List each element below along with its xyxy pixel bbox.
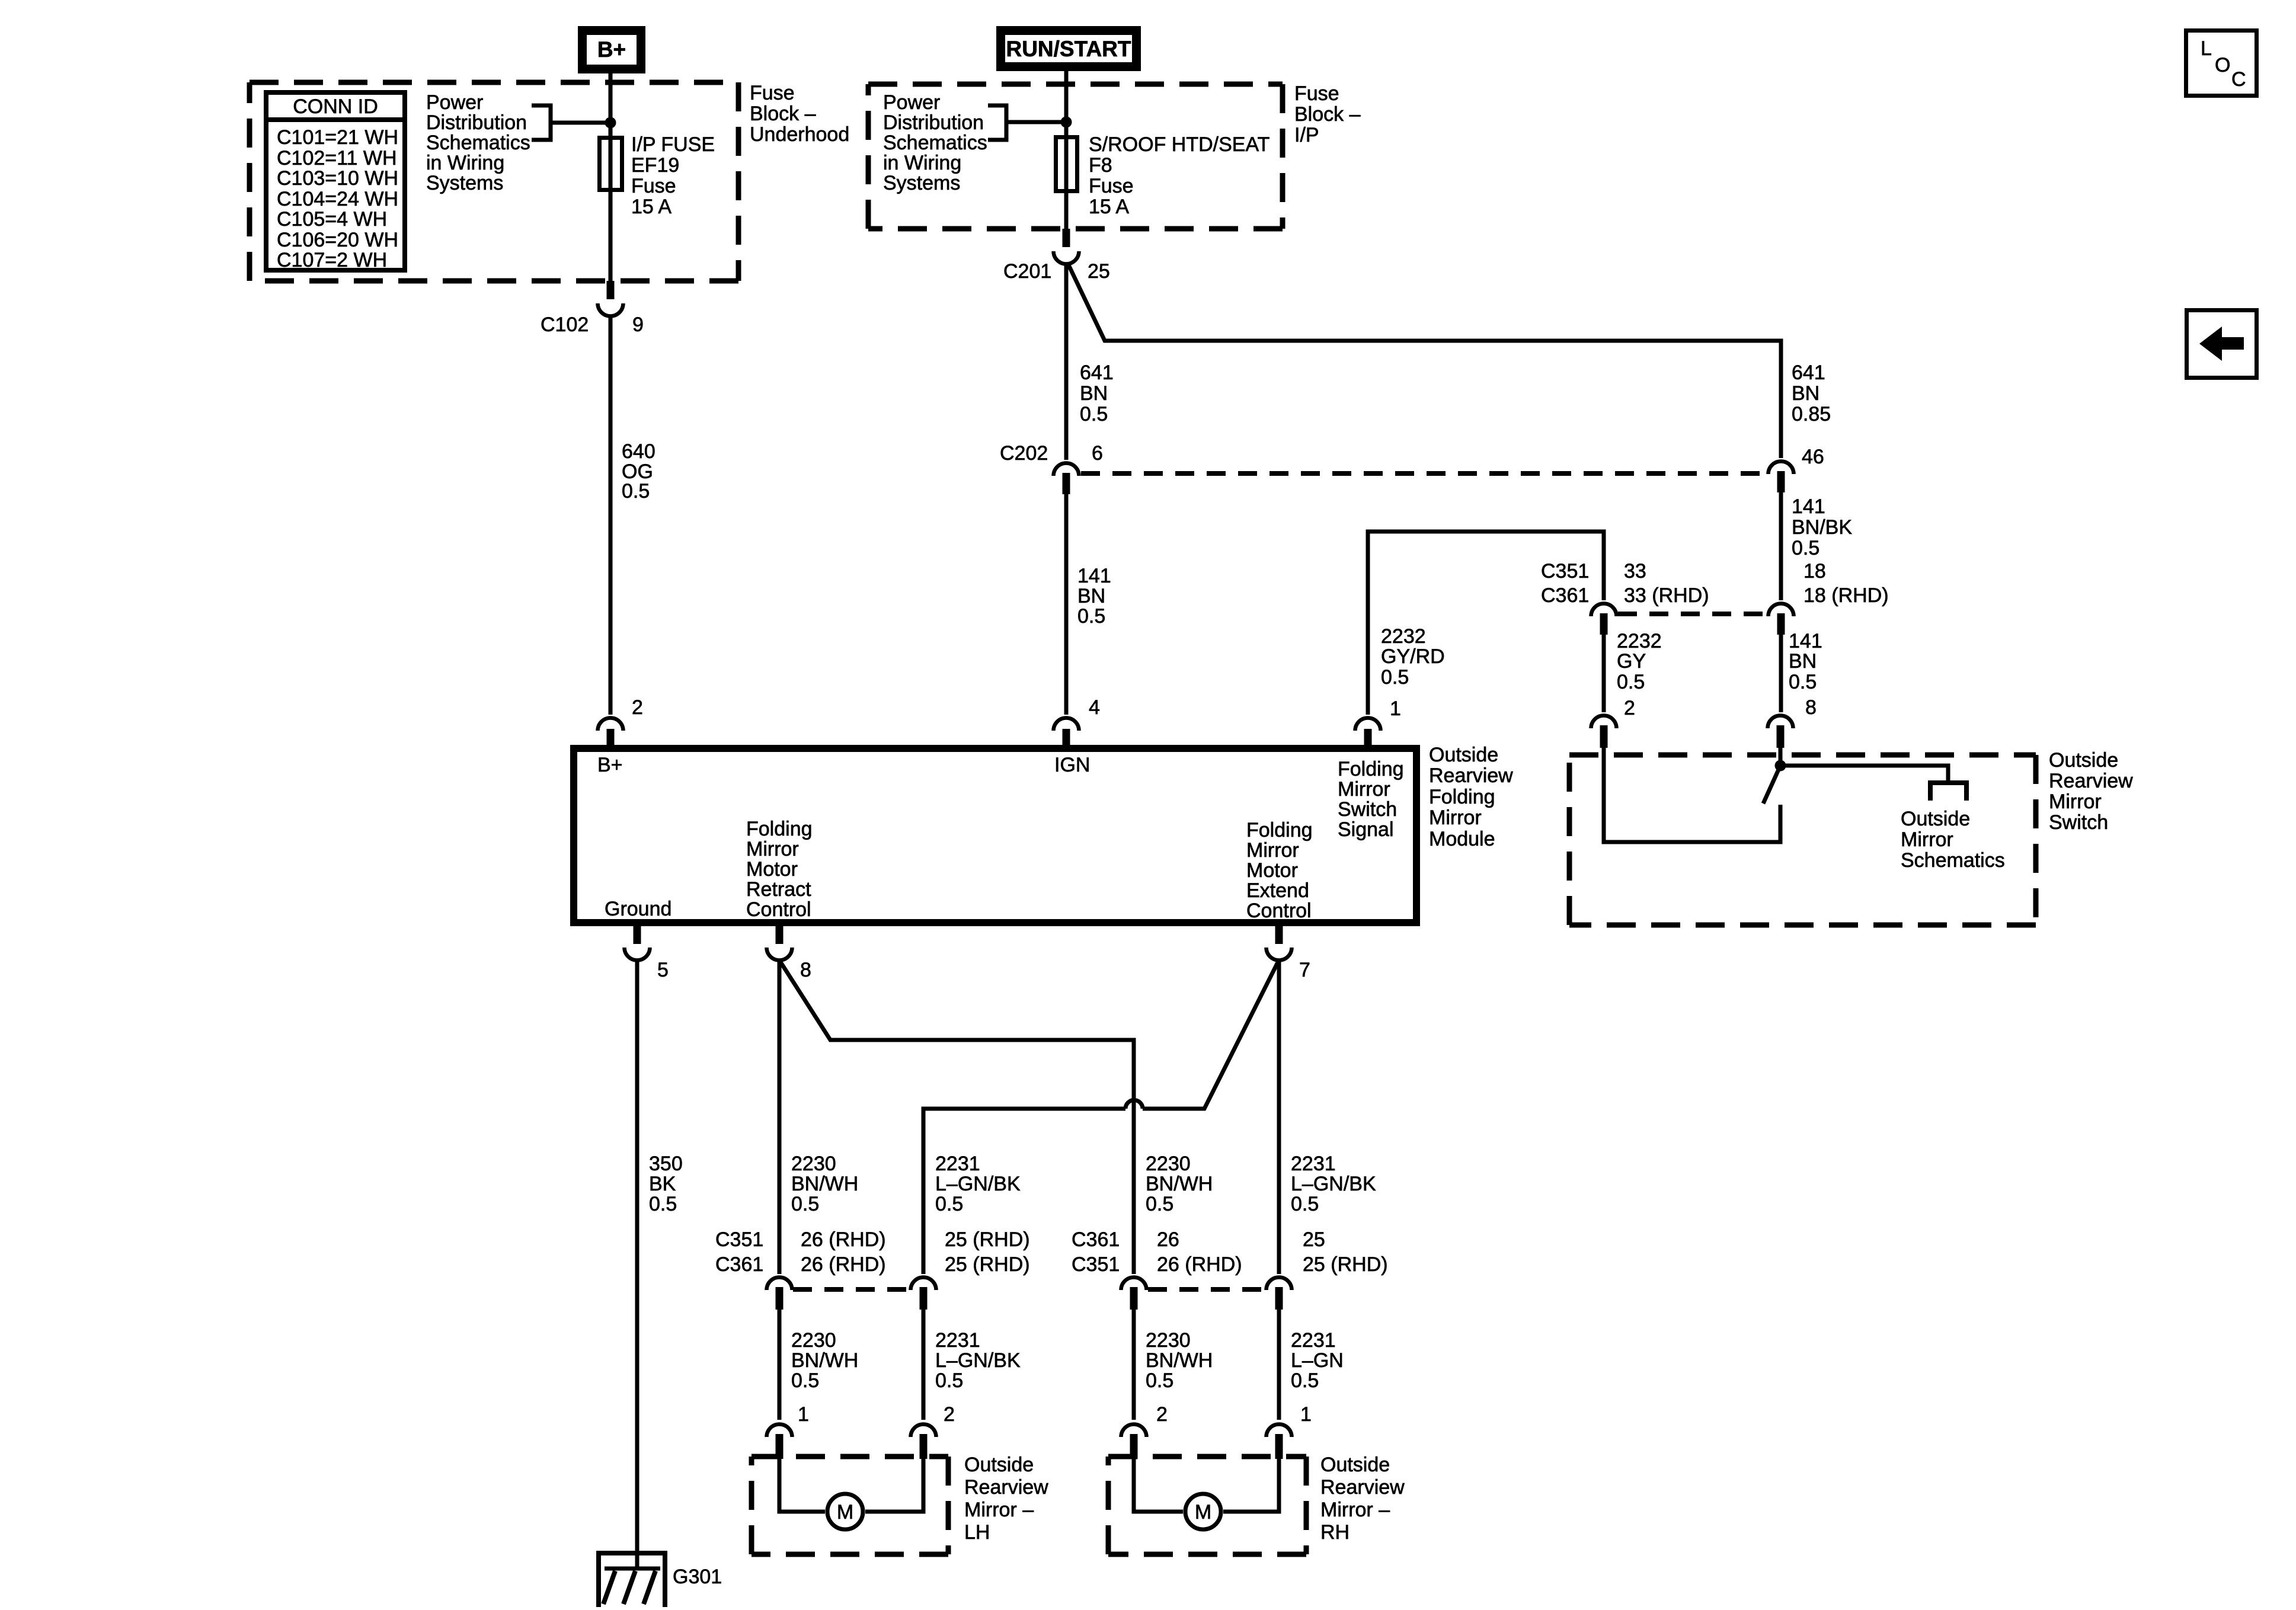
label: power distribution schematics (right) [883, 91, 987, 194]
label: Folding Mirror Motor Extend Control [1246, 819, 1313, 922]
wire 641 BN 0.85 C201 branch to 46 [1067, 263, 1831, 458]
svg-text:F8: F8 [1089, 154, 1112, 177]
svg-text:8: 8 [800, 959, 811, 981]
svg-text:Mirror: Mirror [2049, 790, 2102, 813]
svg-text:L: L [2201, 37, 2212, 60]
svg-text:2: 2 [1624, 697, 1635, 719]
connector C351/C361 pin 26 LH [715, 1228, 886, 1310]
svg-text:Systems: Systems [426, 172, 503, 194]
svg-text:L–GN/BK: L–GN/BK [935, 1173, 1021, 1195]
ground G301 [599, 1553, 722, 1607]
svg-text:C101=21 WH: C101=21 WH [277, 126, 398, 149]
label: power distribution schematics (left) [426, 91, 530, 194]
fuse block underhood dashed box [250, 82, 738, 281]
motor M LH [827, 1494, 863, 1529]
wire 141 BN/BK 0.5 [1781, 492, 1852, 600]
svg-text:IGN: IGN [1054, 754, 1090, 776]
svg-text:Distribution: Distribution [883, 111, 984, 134]
svg-text:2231: 2231 [1291, 1329, 1336, 1352]
svg-text:Rearview: Rearview [1429, 764, 1513, 787]
svg-text:Distribution: Distribution [426, 111, 527, 134]
module pin labels [597, 754, 1090, 920]
svg-text:Power: Power [426, 91, 483, 114]
wire 141 BN 0.5 C202 to IGN [1066, 494, 1111, 715]
svg-text:350: 350 [649, 1153, 683, 1175]
wire 350 BK 0.5 ground [637, 960, 683, 1569]
svg-text:Systems: Systems [883, 172, 960, 194]
dashed splice C202 to 46 [1081, 471, 1766, 476]
svg-text:0.5: 0.5 [791, 1193, 819, 1215]
svg-text:2: 2 [632, 696, 643, 719]
svg-text:Rearview: Rearview [2049, 770, 2133, 792]
motor M RH [1185, 1494, 1221, 1529]
svg-text:I/P FUSE: I/P FUSE [631, 133, 715, 156]
connector C201 pin 25 [1003, 229, 1110, 283]
svg-text:Fuse: Fuse [1089, 175, 1134, 197]
label: Outside Rearview Mirror Switch [2049, 749, 2133, 834]
svg-text:Power: Power [883, 91, 940, 114]
label: Fuse Block Underhood [750, 82, 849, 146]
svg-text:0.5: 0.5 [1291, 1369, 1319, 1392]
svg-text:C104=24 WH: C104=24 WH [277, 188, 398, 210]
svg-text:Outside: Outside [964, 1454, 1034, 1476]
svg-text:Fuse: Fuse [631, 175, 676, 197]
off-page reference symbol [1930, 783, 1966, 801]
RH mirror pin 2 connector [1121, 1403, 1168, 1459]
svg-text:2230: 2230 [791, 1153, 836, 1175]
svg-text:2232: 2232 [1381, 625, 1426, 648]
svg-text:26 (RHD): 26 (RHD) [801, 1253, 886, 1276]
svg-text:C361: C361 [1541, 584, 1589, 607]
junction dot switch [1775, 760, 1786, 772]
LH mirror pin 1 connector [767, 1403, 809, 1459]
fuse EF19 [600, 133, 715, 218]
svg-text:Mirror: Mirror [1246, 839, 1299, 862]
svg-text:Fuse: Fuse [1294, 82, 1339, 105]
svg-text:33: 33 [1624, 560, 1646, 582]
svg-text:C361: C361 [715, 1253, 763, 1276]
svg-text:141: 141 [1077, 565, 1111, 587]
svg-text:2230: 2230 [1146, 1329, 1191, 1352]
svg-text:BN/BK: BN/BK [1792, 516, 1852, 539]
module pin 7 connector (Extend) [1267, 923, 1310, 981]
RH mirror pin 1 connector [1267, 1403, 1312, 1459]
svg-text:Control: Control [746, 898, 811, 921]
RH mirror internal wires [1134, 1459, 1183, 1512]
RH mirror dashed box [1108, 1457, 1306, 1554]
svg-text:6: 6 [1092, 442, 1103, 465]
svg-text:O: O [2215, 54, 2230, 76]
folding mirror module box [574, 748, 1416, 923]
svg-text:BN: BN [1080, 382, 1108, 405]
label: Outside Rearview Mirror LH [964, 1454, 1048, 1544]
svg-text:5: 5 [657, 959, 669, 981]
wire 641 BN 0.5 C201 to C202 [1066, 264, 1114, 460]
switch internal wire from pin 2 [1604, 748, 1780, 842]
svg-text:0.5: 0.5 [935, 1369, 963, 1392]
wire 2230 BN/WH 0.5 pin 8 down [779, 960, 858, 1274]
bracket to B+ feed [532, 105, 610, 140]
svg-text:4: 4 [1089, 696, 1100, 719]
svg-text:2: 2 [944, 1403, 955, 1426]
LH mirror dashed box [752, 1457, 948, 1554]
svg-text:C201: C201 [1003, 260, 1051, 283]
svg-text:15 A: 15 A [631, 196, 671, 218]
svg-text:0.85: 0.85 [1792, 403, 1831, 425]
svg-text:C351: C351 [715, 1228, 763, 1251]
svg-text:B+: B+ [597, 37, 626, 62]
switch lever [1763, 766, 1780, 804]
svg-text:S/ROOF HTD/SEAT: S/ROOF HTD/SEAT [1089, 133, 1269, 156]
svg-text:Fuse: Fuse [750, 82, 795, 104]
module pin 5 connector (Ground) [625, 923, 669, 981]
svg-text:BN/WH: BN/WH [1146, 1173, 1213, 1195]
svg-text:L–GN/BK: L–GN/BK [935, 1349, 1021, 1372]
svg-text:L–GN/BK: L–GN/BK [1291, 1173, 1376, 1195]
dashed splice LH pair [793, 1287, 910, 1292]
connector 46 [1769, 446, 1824, 492]
LOC reference box [2186, 31, 2257, 96]
svg-text:G301: G301 [673, 1566, 722, 1588]
svg-text:25 (RHD): 25 (RHD) [945, 1253, 1030, 1276]
module pin 2 connector [598, 696, 643, 748]
svg-text:9: 9 [632, 313, 644, 336]
svg-text:Extend: Extend [1246, 879, 1309, 902]
wire 2230 BN/WH 0.5 right [1146, 1153, 1213, 1215]
svg-text:Block –: Block – [1294, 103, 1361, 126]
svg-text:Mirror: Mirror [746, 838, 799, 860]
wire 2230 BN/WH to LH mirror pin 1 [779, 1310, 858, 1420]
svg-text:Rearview: Rearview [964, 1476, 1048, 1499]
junction dot B+ feed [605, 117, 616, 129]
svg-text:in Wiring: in Wiring [426, 152, 504, 174]
svg-text:BN/WH: BN/WH [791, 1349, 858, 1372]
back arrow box [2187, 311, 2257, 378]
svg-text:BN: BN [1077, 585, 1105, 607]
svg-text:Folding: Folding [1429, 786, 1495, 808]
svg-text:Rearview: Rearview [1320, 1476, 1405, 1499]
svg-text:2230: 2230 [1146, 1153, 1191, 1175]
svg-text:LH: LH [964, 1521, 990, 1544]
svg-text:Control: Control [1246, 900, 1312, 922]
svg-text:26 (RHD): 26 (RHD) [1157, 1253, 1242, 1276]
svg-text:141: 141 [1789, 630, 1822, 652]
svg-text:1: 1 [1390, 697, 1401, 720]
svg-text:M: M [837, 1501, 853, 1523]
svg-text:0.5: 0.5 [935, 1193, 963, 1215]
svg-text:641: 641 [1080, 361, 1114, 384]
svg-text:B+: B+ [597, 754, 623, 776]
label: Fuse Block I/P [1294, 82, 1361, 146]
wire 2232 GY 0.5 [1604, 630, 1662, 712]
junction dot RUN/START feed [1061, 117, 1072, 128]
connector 18 [1769, 560, 1889, 635]
svg-text:C103=10 WH: C103=10 WH [277, 167, 398, 190]
wire 2230 BN/WH to RH mirror pin 2 [1134, 1310, 1213, 1420]
svg-text:25: 25 [1088, 260, 1110, 283]
svg-text:C107=2 WH: C107=2 WH [277, 249, 387, 271]
LH mirror pin 2 connector [911, 1403, 955, 1459]
wire pin 7 branch to LH mirror with hop [923, 961, 1278, 1274]
svg-text:Schematics: Schematics [883, 132, 987, 154]
svg-text:C102: C102 [541, 313, 589, 336]
svg-text:EF19: EF19 [631, 154, 679, 177]
svg-text:25 (RHD): 25 (RHD) [945, 1228, 1030, 1251]
label: Folding Mirror Motor Retract Control [746, 818, 813, 921]
dashed splice RH pair [1148, 1287, 1265, 1292]
svg-text:Outside: Outside [1901, 808, 1970, 830]
svg-text:Mirror: Mirror [1338, 778, 1390, 801]
svg-text:0.5: 0.5 [1789, 671, 1817, 693]
svg-text:0.5: 0.5 [1080, 403, 1108, 425]
bracket to RUN/START feed [988, 105, 1066, 140]
svg-text:2: 2 [1156, 1403, 1168, 1426]
module pin 4 connector [1054, 696, 1100, 748]
svg-text:0.5: 0.5 [791, 1369, 819, 1392]
svg-text:46: 46 [1802, 446, 1824, 468]
svg-text:2232: 2232 [1617, 630, 1662, 652]
svg-text:Outside: Outside [1320, 1454, 1390, 1476]
svg-text:Mirror: Mirror [1429, 806, 1482, 829]
wire switch to off-page [1780, 766, 1948, 782]
svg-text:8: 8 [1805, 696, 1817, 719]
label: Outside Rearview Mirror RH [1320, 1454, 1405, 1544]
svg-text:2230: 2230 [791, 1329, 836, 1352]
svg-text:0.5: 0.5 [1617, 671, 1645, 693]
svg-text:0.5: 0.5 [1146, 1369, 1173, 1392]
svg-text:Block –: Block – [750, 103, 816, 125]
svg-text:BN: BN [1789, 650, 1817, 673]
label: Outside Mirror Schematics [1901, 808, 2005, 872]
connector C361/C351 pin 26 RH [1072, 1228, 1242, 1310]
LH mirror internal wires [779, 1459, 825, 1512]
svg-text:Folding: Folding [1338, 758, 1404, 780]
svg-text:2231: 2231 [935, 1153, 980, 1175]
svg-text:GY/RD: GY/RD [1381, 645, 1445, 668]
wire 2231 L-GN/BK to LH mirror pin 2 [923, 1310, 1021, 1420]
svg-text:641: 641 [1792, 361, 1825, 384]
svg-text:C: C [2231, 68, 2246, 91]
module pin 1 connector [1355, 697, 1401, 748]
svg-text:0.5: 0.5 [1077, 605, 1105, 628]
svg-text:640: 640 [622, 440, 655, 463]
svg-text:BN/WH: BN/WH [791, 1173, 858, 1195]
svg-text:26: 26 [1157, 1228, 1179, 1251]
svg-text:BN: BN [1792, 382, 1819, 405]
svg-text:Schematics: Schematics [1901, 849, 2005, 872]
svg-text:C351: C351 [1541, 560, 1589, 582]
svg-text:C105=4 WH: C105=4 WH [277, 208, 387, 231]
label: Outside Rearview Folding Mirror Module [1429, 744, 1513, 850]
svg-text:C106=20 WH: C106=20 WH [277, 229, 398, 251]
connector switch pin 8 [1768, 696, 1817, 748]
wire 640 OG 0.5 [610, 316, 655, 715]
svg-text:1: 1 [798, 1403, 809, 1426]
svg-text:141: 141 [1792, 495, 1825, 518]
svg-text:0.5: 0.5 [622, 480, 650, 502]
power terminal B+ [583, 31, 641, 69]
svg-text:0.5: 0.5 [1792, 537, 1819, 559]
svg-text:Ground: Ground [605, 898, 671, 920]
wire B+ to fuse EF19 [609, 73, 613, 281]
connector C102 pin 9 [541, 281, 644, 336]
wire 2231 L-GN/BK 0.5 left [935, 1153, 1021, 1215]
svg-text:18 (RHD): 18 (RHD) [1803, 584, 1889, 607]
svg-text:CONN ID: CONN ID [293, 95, 378, 118]
svg-text:Mirror –: Mirror – [1320, 1499, 1390, 1521]
wire 2231 L-GN to RH mirror pin 1 [1279, 1310, 1344, 1420]
svg-text:1: 1 [1300, 1403, 1312, 1426]
svg-text:Mirror –: Mirror – [964, 1499, 1034, 1521]
svg-text:M: M [1195, 1501, 1211, 1523]
power terminal RUN/START [1001, 31, 1137, 67]
svg-text:I/P: I/P [1294, 124, 1319, 146]
svg-text:25 (RHD): 25 (RHD) [1303, 1253, 1388, 1276]
svg-text:Folding: Folding [1246, 819, 1313, 841]
svg-text:33 (RHD): 33 (RHD) [1624, 584, 1709, 607]
svg-text:26 (RHD): 26 (RHD) [801, 1228, 886, 1251]
svg-text:BN/WH: BN/WH [1146, 1349, 1213, 1372]
svg-text:Folding: Folding [746, 818, 813, 840]
connector C351/C361 pin 33 [1541, 560, 1709, 635]
wire pin 8 branch to RH mirror [780, 961, 1134, 1274]
wire 2231 L-GN/BK 0.5 pin 7 down [1279, 960, 1376, 1274]
svg-text:18: 18 [1803, 560, 1826, 582]
svg-text:2231: 2231 [1291, 1153, 1336, 1175]
svg-text:Module: Module [1429, 828, 1495, 850]
dashed splice 33 to 18 [1618, 612, 1767, 616]
svg-text:Schematics: Schematics [426, 132, 530, 154]
svg-text:C202: C202 [1000, 442, 1048, 465]
wire RUN/START to fuse F8 [1064, 71, 1069, 229]
svg-text:7: 7 [1299, 959, 1310, 981]
svg-text:in Wiring: in Wiring [883, 152, 961, 174]
outside rearview mirror switch dashed box [1569, 755, 2036, 925]
svg-text:Outside: Outside [2049, 749, 2118, 772]
svg-text:C102=11 WH: C102=11 WH [277, 147, 397, 169]
svg-text:Mirror: Mirror [1901, 828, 1953, 851]
svg-text:0.5: 0.5 [649, 1193, 677, 1215]
CONN ID table [266, 92, 405, 271]
svg-text:2231: 2231 [935, 1329, 980, 1352]
wire 141 BN 0.5 right [1781, 630, 1822, 712]
svg-text:Underhood: Underhood [750, 123, 849, 146]
RH mirror internal wires right [1223, 1459, 1279, 1512]
svg-text:Motor: Motor [1246, 859, 1298, 882]
connector C202 pin 6 [1000, 442, 1103, 494]
connector pin 25 LH [911, 1228, 1030, 1310]
svg-text:BK: BK [649, 1173, 676, 1195]
svg-text:Switch: Switch [1338, 798, 1397, 821]
svg-text:0.5: 0.5 [1291, 1193, 1319, 1215]
svg-text:25: 25 [1303, 1228, 1325, 1251]
svg-text:C351: C351 [1072, 1253, 1120, 1276]
svg-text:L–GN: L–GN [1291, 1349, 1344, 1372]
fuse block I/P dashed box [868, 84, 1283, 229]
svg-text:Signal: Signal [1338, 818, 1394, 841]
wire 2232 GY/RD 0.5 from module pin 1 [1368, 532, 1604, 715]
LH mirror internal wires right [865, 1459, 923, 1512]
svg-text:Switch: Switch [2049, 811, 2108, 834]
connector pin 25 RH [1267, 1228, 1388, 1310]
svg-text:0.5: 0.5 [1381, 666, 1409, 689]
svg-text:RH: RH [1320, 1521, 1350, 1544]
svg-text:GY: GY [1617, 650, 1646, 673]
module pin 8 connector (Retract) [767, 923, 811, 981]
connector switch pin 2 [1591, 697, 1635, 748]
svg-text:Outside: Outside [1429, 744, 1498, 766]
switch internal wire from pin 8 [1779, 748, 1783, 766]
svg-text:Motor: Motor [746, 858, 798, 881]
label: Folding Mirror Switch Signal [1338, 758, 1404, 841]
svg-text:C361: C361 [1072, 1228, 1120, 1251]
svg-text:Retract: Retract [746, 878, 811, 901]
svg-text:0.5: 0.5 [1146, 1193, 1173, 1215]
fuse F8 [1056, 133, 1270, 218]
svg-text:15 A: 15 A [1089, 196, 1129, 218]
svg-text:RUN/START: RUN/START [1006, 37, 1131, 61]
